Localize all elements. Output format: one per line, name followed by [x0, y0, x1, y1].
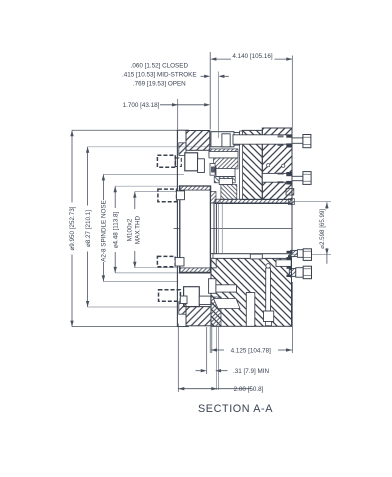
svg-text:M100x2: M100x2 — [127, 218, 134, 241]
svg-text:.31 [7.9] MIN: .31 [7.9] MIN — [233, 368, 269, 375]
key tick — [233, 255, 236, 259]
front ring step line — [177, 129, 188, 131]
stud S1 seat small — [198, 159, 205, 173]
stud S3 neck — [175, 258, 184, 266]
bolt A head — [303, 249, 311, 261]
bolt2 nut bits — [286, 172, 292, 176]
stud S4 head — [159, 290, 181, 302]
svg-text:.060 [1.52] CLOSED: .060 [1.52] CLOSED — [131, 63, 189, 70]
svg-text:A2-8 SPINDLE NOSE: A2-8 SPINDLE NOSE — [101, 200, 108, 262]
T-nut block — [211, 132, 234, 147]
retaining ring (dense) — [286, 189, 294, 196]
svg-text:⌀2.598 [65.99]: ⌀2.598 [65.99] — [319, 209, 326, 249]
white rect left — [209, 279, 216, 294]
drill mark 2 — [282, 164, 285, 167]
bolt B head — [303, 266, 311, 279]
bolt B neck — [296, 268, 303, 278]
collet lower hatched — [221, 185, 237, 200]
dimension A2-8 SPINDLE NOSE — [102, 174, 104, 200]
ext line bore top right — [292, 201, 332, 203]
front ring top (hatched) — [186, 131, 210, 151]
dim 2.00 [50.8] — [178, 388, 217, 390]
stud S3 head — [157, 256, 175, 266]
spindle nose cylinder — [180, 186, 211, 272]
bolt2 shank slot — [262, 173, 292, 182]
white bore lead-in — [220, 200, 232, 204]
stud S1 neck — [175, 158, 181, 167]
bolt2 head — [303, 172, 311, 185]
stud S1 seat — [185, 153, 198, 171]
vertical bolt tip — [266, 322, 272, 326]
extension line M100 bottom — [135, 267, 179, 269]
stud S1 head — [157, 155, 175, 167]
extension line dia 9.950 bottom — [72, 326, 189, 328]
bore right face — [291, 203, 293, 254]
white slot — [219, 179, 232, 185]
right step ring top (hatched) — [289, 199, 295, 205]
front ring lip (hatched) — [179, 143, 186, 156]
lower ext vertical grey x=216.6 — [216, 327, 218, 390]
lower ext vertical x=210.2 — [209, 327, 211, 353]
bottom body block (hatched) — [211, 258, 292, 326]
bore top edge — [211, 202, 292, 204]
white band — [209, 152, 238, 158]
svg-text:.415 [10.53] MID-STROKE: .415 [10.53] MID-STROKE — [122, 72, 197, 79]
small block right of T-nut — [234, 133, 240, 146]
jaw white big — [184, 287, 200, 307]
right notch — [276, 260, 291, 267]
bolt1 nut bits — [286, 135, 292, 138]
vertical bolt circle — [266, 264, 270, 268]
bottom band white — [213, 254, 289, 258]
dimension dia 8.27 [210.1] — [87, 147, 89, 206]
centerline — [174, 228, 293, 230]
lower ext vertical x=218.6 — [218, 327, 220, 390]
drawtube step white — [211, 254, 217, 268]
extension line dia 4.48 bottom — [115, 272, 179, 274]
lower ext vertical x=292.6 — [292, 282, 294, 353]
dim 4.125 [104.78] — [211, 349, 224, 351]
extension line A2-8 bottom — [103, 280, 177, 282]
channel white column — [240, 131, 243, 200]
bolt A nut bits — [287, 251, 293, 253]
lower ext vertical x=206.7 — [206, 327, 208, 374]
svg-text:4.140 [105.16]: 4.140 [105.16] — [232, 53, 273, 60]
dark corner bit — [288, 255, 292, 260]
white channel — [246, 293, 255, 327]
svg-text:2.00 [50.8]: 2.00 [50.8] — [234, 386, 264, 393]
white slot left — [216, 285, 237, 292]
drawtube end lines — [213, 204, 215, 254]
snap ring dark — [211, 167, 217, 173]
vertical bolt shaft — [266, 268, 271, 311]
dimension M100x2 MAX THD — [134, 192, 136, 209]
bolt A washer — [291, 250, 298, 256]
svg-text:⌀9.950 [252.73]: ⌀9.950 [252.73] — [69, 206, 76, 250]
extension line dia 8.27 top — [88, 146, 211, 148]
extension vertical 4.140 right — [291, 56, 293, 128]
dimension dia 2.598 [65.99] — [326, 202, 328, 209]
vertical bolt head — [264, 311, 274, 322]
pin white — [216, 169, 235, 177]
stud S2 neck — [177, 191, 185, 200]
wedge slot white — [214, 299, 241, 309]
svg-text:⌀8.27 [210.1]: ⌀8.27 [210.1] — [85, 210, 92, 247]
extension line dia 9.950 top — [72, 129, 189, 131]
svg-text:MAX THD: MAX THD — [134, 215, 141, 244]
lower ext vertical x=211.8 — [211, 327, 213, 353]
drawbar grey line inside T-nut — [217, 132, 219, 138]
bolt A neck — [297, 250, 303, 258]
collet wedge hatched B — [214, 177, 235, 183]
stud S2 head — [158, 189, 177, 202]
stud S4 neck — [180, 296, 187, 304]
drawtube step grey column — [211, 192, 216, 204]
bottom flange block (hatched) — [186, 307, 211, 326]
drill mark 1 — [267, 164, 270, 167]
svg-text:SECTION A-A: SECTION A-A — [198, 403, 273, 415]
extension line dia 8.27 bottom — [88, 306, 178, 308]
extension line dia 4.48 top — [115, 185, 179, 187]
cylinder body block (hatched) — [262, 128, 292, 200]
bottom flange lip (hatched) — [179, 302, 186, 315]
bolt1 shank outside — [292, 138, 303, 143]
collet wedge hatched A — [214, 158, 239, 169]
hatched strip under T-nut — [209, 149, 238, 155]
ext line bore bottom right — [291, 254, 332, 256]
jaw white small — [199, 296, 211, 304]
dimension dia 9.950 [252.73] — [71, 130, 73, 202]
bottom step line — [177, 326, 188, 328]
extension vertical x=210 — [209, 52, 211, 130]
dimension dia 4.48 [113.8] — [114, 186, 116, 208]
bolt1 head — [303, 135, 311, 148]
spindle taper ring top (hatched) — [179, 186, 211, 190]
extension line M100 top — [135, 191, 181, 193]
white key left — [210, 164, 215, 176]
liner dense band above bore — [215, 199, 292, 203]
svg-text:⌀4.48 [113.8]: ⌀4.48 [113.8] — [112, 211, 119, 248]
extension vertical for 1.700 left — [177, 99, 179, 140]
key bar — [250, 254, 262, 259]
chuck face line — [176, 130, 178, 326]
clamp nut cross column (dense) — [211, 297, 221, 326]
svg-text:1.700 [43.18]: 1.700 [43.18] — [123, 102, 160, 109]
bolt B nut bits — [287, 266, 293, 268]
bolt B washer — [289, 269, 296, 277]
extension line A2-8 top — [103, 173, 184, 175]
lower ext vertical x=178.3 — [177, 324, 179, 393]
svg-text:.769 [19.53] OPEN: .769 [19.53] OPEN — [133, 81, 186, 88]
bolt2 shank outside — [292, 176, 303, 180]
piston block (hatched) — [242, 130, 262, 199]
bore bottom edge — [211, 253, 292, 255]
dim .31 [7.9] MIN — [196, 370, 201, 372]
extension vertical grey x=218.4 — [217, 72, 219, 139]
bolt1 shank slot — [233, 135, 292, 144]
stroke dim arrows — [201, 75, 205, 77]
backplate strip (hatched) — [179, 268, 210, 273]
svg-text:4.125 [104.78]: 4.125 [104.78] — [231, 347, 272, 354]
